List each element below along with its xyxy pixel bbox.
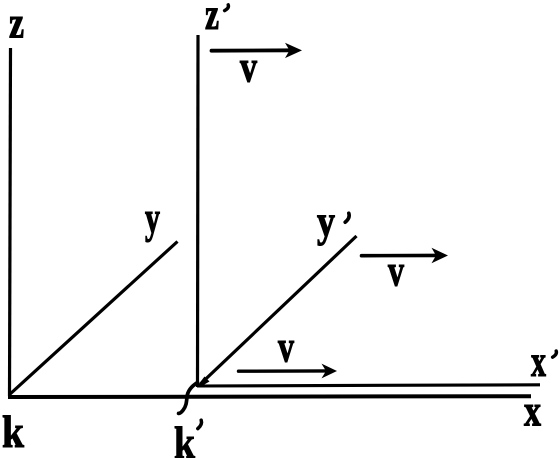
svg-text:y: y	[145, 194, 160, 243]
arrow v bottom (velocity arrow near x' axis)	[239, 364, 338, 379]
axis x (frame k horizontal axis)	[8, 394, 531, 399]
frame label k'	[174, 417, 202, 458]
svg-text:x: x	[531, 337, 546, 386]
svg-text:y: y	[317, 197, 335, 246]
label y'	[317, 197, 349, 246]
svg-text:z: z	[9, 0, 24, 48]
svg-text:z: z	[205, 0, 219, 39]
arrow v middle (velocity arrow near y' axis)	[362, 248, 449, 263]
svg-text:x: x	[524, 387, 541, 436]
label z'	[205, 0, 228, 39]
axis z' (frame k' vertical axis)	[196, 35, 200, 387]
axis x' (frame k' horizontal axis)	[197, 385, 540, 386]
svg-text:v: v	[388, 247, 404, 296]
axis y (frame k diagonal axis)	[9, 242, 178, 396]
origin squiggle at k'	[179, 383, 198, 414]
svg-text:v: v	[240, 43, 257, 92]
label x'	[531, 337, 556, 386]
svg-text:k: k	[174, 417, 195, 458]
ink wedge at k' origin	[197, 377, 210, 388]
axis z (frame k vertical axis)	[10, 48, 11, 396]
axis y' (frame k' diagonal axis)	[201, 236, 357, 384]
svg-text:k: k	[2, 406, 24, 457]
svg-text:v: v	[278, 323, 294, 372]
arrow v top (velocity arrow near z' axis)	[212, 43, 303, 58]
